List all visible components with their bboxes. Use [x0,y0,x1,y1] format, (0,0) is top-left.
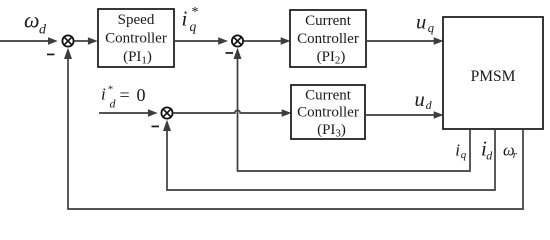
wire: S3 to current controller PI3 with hop over crossing [173,110,283,113]
minus sign at S3 [152,126,160,128]
summing junction S1 [62,35,73,46]
svg-text:= 0: = 0 [120,85,147,105]
svg-text:q: q [461,149,467,161]
svg-text:r: r [513,149,518,161]
svg-text:d: d [39,23,47,38]
block: Speed Controller (PI1) [98,9,174,67]
svg-text:(PI3): (PI3) [317,122,346,140]
svg-text:Controller: Controller [297,105,359,121]
svg-text:i: i [455,140,460,159]
svg-text:u: u [416,12,426,34]
svg-text:q: q [428,21,434,35]
svg-text:Current: Current [305,13,352,29]
wire: S1 to speed controller [74,40,88,42]
wire: S2 to current controller PI2 [244,40,281,42]
block: Current Controller (PI3) [291,85,365,139]
wire: speed controller to S2 [174,40,219,42]
svg-text:Controller: Controller [105,31,167,47]
wire: i_d feedback to S3 [167,129,495,190]
svg-text:u: u [415,89,425,111]
wire: speed reference input [0,40,50,42]
wire: omega_r feedback to S1 [68,58,523,209]
block: Current Controller (PI2) [290,10,366,67]
svg-text:Controller: Controller [297,31,359,47]
svg-text:*: * [192,5,199,20]
minus sign at S2 [226,52,234,54]
svg-text:ω: ω [24,8,40,33]
svg-text:d: d [486,149,493,163]
wire: u_d to PMSM [365,114,434,116]
wire: d-axis current reference input [99,112,149,114]
svg-text:d: d [426,98,433,112]
svg-text:*: * [108,84,114,96]
svg-text:(PI1): (PI1) [123,49,152,67]
minus sign at S1 [47,54,55,56]
svg-text:i: i [182,7,188,31]
svg-text:Current: Current [305,88,352,104]
svg-text:(PI2): (PI2) [317,49,346,67]
svg-text:i: i [101,85,106,104]
wire: u_q to PMSM [366,40,434,42]
svg-text:d: d [110,97,117,111]
wire: i_q feedback to S2 [238,58,471,171]
block: PMSM [443,17,543,129]
summing junction S3 [161,107,172,118]
summing junction S2 [232,35,243,46]
svg-text:Speed: Speed [118,12,155,28]
svg-text:q: q [190,19,197,34]
svg-text:PMSM: PMSM [471,68,516,85]
